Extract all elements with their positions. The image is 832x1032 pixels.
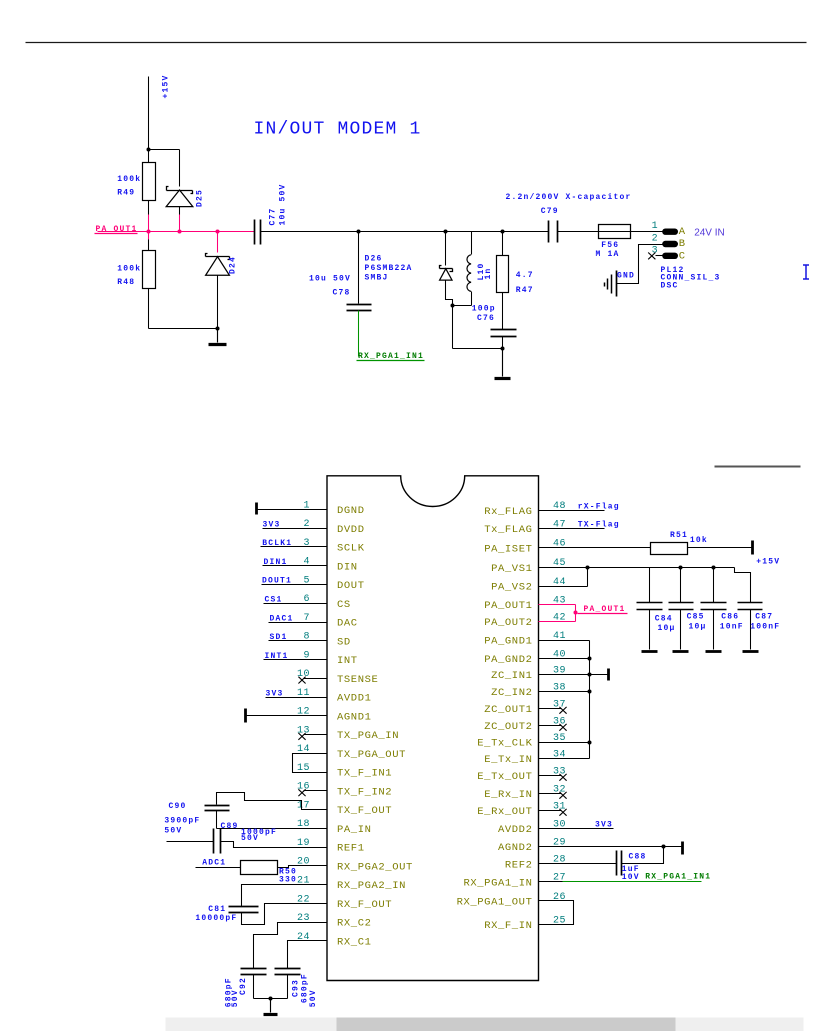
wire: R48 bottom to ground (149, 289, 220, 331)
svg-text:680pF: 680pF (300, 973, 309, 1003)
svg-text:TX_PGA_IN: TX_PGA_IN (337, 730, 399, 742)
pin 18 PA_IN (297, 819, 372, 836)
svg-text:REF1: REF1 (337, 843, 365, 855)
net label INT1 (pin 9) (265, 652, 289, 661)
pin 46 PA_ISET (484, 539, 566, 556)
svg-text:PA_OUT1: PA_OUT1 (584, 605, 626, 614)
svg-text:D26: D26 (365, 255, 383, 264)
svg-text:C78: C78 (333, 289, 351, 298)
svg-text:TX_F_IN2: TX_F_IN2 (337, 786, 392, 798)
svg-text:ZC_IN2: ZC_IN2 (491, 687, 532, 699)
ground (C92/C93) (254, 997, 288, 1015)
pin 12 AGND1 (246, 707, 372, 724)
resistor R47 4.7 (497, 232, 534, 330)
svg-text:DSC: DSC (661, 281, 679, 290)
pin 29 AGND2 (498, 837, 566, 854)
svg-text:B: B (679, 238, 686, 250)
svg-text:INT: INT (337, 655, 358, 667)
wire: main AC line (261, 230, 663, 234)
svg-text:IN/OUT MODEM 1: IN/OUT MODEM 1 (254, 120, 422, 140)
ground (R48/D24) (209, 329, 227, 345)
svg-text:AGND1: AGND1 (337, 711, 372, 723)
svg-text:ADC1: ADC1 (202, 859, 226, 868)
svg-text:M 1A: M 1A (596, 250, 620, 259)
svg-text:100nF: 100nF (750, 623, 780, 632)
pin 33 E_Tx_OUT (477, 766, 566, 783)
net label DOUT1 (pin 5) (262, 577, 292, 586)
capacitor C85 10µ (669, 568, 707, 652)
svg-text:C87: C87 (755, 613, 773, 622)
svg-text:1: 1 (652, 221, 659, 232)
svg-text:RX_PGA1_IN: RX_PGA1_IN (463, 877, 532, 889)
svg-text:Tx_FLAG: Tx_FLAG (484, 524, 532, 536)
capacitor C81 10000pF (195, 885, 326, 925)
pin 14 TX_PGA_OUT (297, 744, 406, 761)
svg-text:PA_IN: PA_IN (337, 824, 372, 836)
capacitor C90 3900pF 50V (164, 793, 326, 836)
svg-text:E_Tx_OUT: E_Tx_OUT (477, 771, 532, 783)
svg-text:PA_VS1: PA_VS1 (491, 563, 532, 575)
svg-text:AGND2: AGND2 (498, 842, 533, 854)
svg-text:REF2: REF2 (505, 859, 533, 871)
svg-text:100k: 100k (117, 175, 141, 184)
svg-text:24V IN: 24V IN (694, 228, 725, 239)
svg-text:rX-Flag: rX-Flag (578, 502, 620, 511)
pin 32 E_Rx_IN (484, 784, 566, 801)
svg-text:E_Rx_IN: E_Rx_IN (484, 789, 532, 801)
pin 27 RX_PGA1_IN (463, 873, 566, 890)
wire: ZC_IN1 terminator (539, 669, 609, 681)
svg-text:RX_C1: RX_C1 (337, 937, 372, 949)
pin 1 DGND (256, 500, 365, 517)
svg-text:AVDD1: AVDD1 (337, 693, 372, 705)
capacitor C92 680pF 50V (224, 923, 326, 1008)
pin 6 CS (264, 594, 351, 611)
ground (filter) (495, 349, 511, 379)
text cursor I-beam (803, 265, 809, 279)
zener diode D25 (166, 187, 204, 232)
svg-text:3900pF: 3900pF (164, 817, 200, 826)
TVS diode D26 P6SMB22A (365, 232, 453, 306)
svg-text:C88: C88 (629, 852, 647, 861)
svg-text:26: 26 (553, 892, 566, 903)
capacitor C89 1000pF 50V (167, 822, 327, 854)
svg-text:R49: R49 (117, 189, 135, 198)
pin 38 ZC_IN2 (491, 682, 566, 699)
capacitor C93 680pF 50V (275, 941, 327, 1008)
svg-text:C81: C81 (208, 905, 226, 914)
pin 37 ZC_OUT1 (484, 699, 566, 716)
pin 12 terminator bar (244, 709, 247, 723)
svg-text:10µ: 10µ (689, 623, 707, 632)
resistor R48 100k (117, 232, 155, 289)
pin 43 PA_OUT1 (484, 595, 566, 612)
wire: PA_VS1/PA_VS2 +15V rail (539, 566, 751, 603)
capacitor C88 1uF 10V (REF2) (539, 847, 664, 882)
zener diode D24 (206, 232, 238, 329)
pin 24 RX_C1 (297, 932, 372, 949)
inductor L10 1n (467, 232, 493, 306)
svg-text:RX_C2: RX_C2 (337, 918, 372, 930)
svg-text:F56: F56 (601, 241, 619, 250)
svg-text:3V3: 3V3 (266, 689, 284, 698)
svg-text:2.2n/200V X-capacitor: 2.2n/200V X-capacitor (506, 193, 632, 202)
net RX_PGA1_IN1 (pin 27) (539, 873, 712, 882)
wire: pins 26-25 loop (539, 901, 574, 925)
svg-text:P6SMB22A: P6SMB22A (365, 264, 413, 273)
wire: PA_GND rail (pins 41,40,39,38,35,34) (539, 641, 592, 759)
svg-text:10µ: 10µ (658, 624, 676, 633)
pin 16 TX_F_IN2 (297, 782, 392, 799)
svg-text:RX_F_IN: RX_F_IN (484, 920, 532, 932)
svg-text:C85: C85 (687, 613, 705, 622)
svg-text:PA_ISET: PA_ISET (484, 543, 532, 555)
pin 26 RX_PGA1_OUT (457, 892, 566, 909)
svg-text:PA_OUT1: PA_OUT1 (484, 600, 532, 612)
svg-text:SCLK: SCLK (337, 543, 365, 555)
svg-text:D25: D25 (195, 189, 204, 207)
svg-text:24: 24 (297, 932, 310, 943)
svg-text:RX_PGA1_IN1: RX_PGA1_IN1 (645, 873, 711, 882)
svg-text:GND: GND (617, 272, 635, 281)
net label SD1 (pin 8) (270, 633, 288, 642)
pin 8 SD (269, 632, 351, 649)
pin 1 terminator bar (255, 503, 258, 515)
svg-text:3V3: 3V3 (263, 521, 281, 530)
svg-text:E_Tx_CLK: E_Tx_CLK (477, 738, 532, 750)
svg-text:RX_PGA2_OUT: RX_PGA2_OUT (337, 861, 413, 873)
net label 3V3 (pin 2) (263, 521, 281, 530)
fuse F56 M 1A (596, 225, 631, 259)
svg-text:PA_VS2: PA_VS2 (491, 582, 532, 594)
pin 7 DAC (269, 613, 358, 630)
svg-text:C89: C89 (221, 822, 239, 831)
svg-text:50V: 50V (164, 827, 182, 836)
svg-text:RX_PGA1_OUT: RX_PGA1_OUT (457, 897, 533, 909)
wire: pins 14-15 loop (293, 754, 327, 773)
svg-text:12: 12 (297, 707, 310, 718)
svg-text:C92: C92 (239, 977, 248, 995)
net RX_PGA1_IN1 (at C78) (357, 311, 425, 362)
svg-text:+15V: +15V (162, 74, 171, 98)
svg-text:PA_GND1: PA_GND1 (484, 636, 532, 648)
pin 31 E_Rx_OUT (477, 801, 566, 818)
svg-text:3V3: 3V3 (595, 821, 613, 830)
net label CS1 (pin 6) (265, 596, 283, 605)
pin 42 PA_OUT2 (484, 612, 566, 629)
resistor R51 10k to +15V (539, 531, 781, 566)
svg-text:TX_PGA_OUT: TX_PGA_OUT (337, 749, 406, 761)
pin 34 E_Tx_IN (484, 749, 566, 766)
svg-text:20: 20 (297, 857, 310, 868)
net label 3V3 (pin 11) (266, 689, 284, 698)
capacitor C79 2.2n/200V X-capacitor (506, 193, 632, 242)
svg-text:C76: C76 (477, 314, 495, 323)
svg-text:E_Tx_IN: E_Tx_IN (484, 754, 532, 766)
pin 21 RX_PGA2_IN (297, 876, 406, 893)
svg-text:50V: 50V (241, 834, 259, 843)
wire: pin2 to GND (617, 245, 663, 284)
svg-text:DAC: DAC (337, 618, 358, 630)
net 3V3 (pin 30) (539, 821, 614, 830)
pin 35 E_Tx_CLK (477, 733, 566, 750)
capacitor C87 100nF (738, 603, 781, 652)
svg-text:TX_F_OUT: TX_F_OUT (337, 805, 392, 817)
svg-text:SD1: SD1 (270, 633, 288, 642)
svg-text:3: 3 (303, 538, 310, 549)
scrollbar track (166, 1018, 804, 1032)
svg-text:330: 330 (279, 876, 297, 885)
svg-text:ZC_OUT1: ZC_OUT1 (484, 704, 532, 716)
svg-text:DOUT1: DOUT1 (262, 577, 292, 586)
label 24V IN (694, 228, 725, 239)
wire: AGND2 (pin 29) with terminator (539, 842, 683, 855)
pin 15 TX_F_IN1 (297, 763, 392, 780)
scrollbar thumb (337, 1018, 676, 1032)
node: +15V junction (147, 148, 180, 187)
svg-text:D24: D24 (229, 256, 238, 274)
pin 23 RX_C2 (297, 913, 372, 930)
pin 36 ZC_OUT2 (484, 716, 566, 733)
gray divider line (715, 466, 801, 468)
svg-text:TX_F_IN1: TX_F_IN1 (337, 768, 392, 780)
svg-text:DOUT: DOUT (337, 580, 365, 592)
svg-text:R47: R47 (516, 286, 534, 295)
svg-text:CS: CS (337, 599, 351, 611)
svg-text:RX_PGA2_IN: RX_PGA2_IN (337, 880, 406, 892)
pin 3 no-connect (648, 253, 662, 260)
net label DAC1 (pin 7) (270, 614, 294, 623)
pin 19 REF1 (297, 838, 365, 855)
svg-text:C: C (679, 250, 686, 262)
pin 20 RX_PGA2_OUT (297, 857, 413, 874)
svg-text:Rx_FLAG: Rx_FLAG (484, 506, 532, 518)
pin 4 DIN (263, 557, 358, 574)
svg-text:+15V: +15V (756, 557, 780, 566)
ground GND (connector) (605, 271, 636, 297)
capacitor C86 10nF (701, 568, 744, 652)
svg-text:C84: C84 (655, 615, 673, 624)
svg-text:A: A (679, 226, 686, 238)
capacitor C77 10u 50V (255, 183, 288, 244)
pin 40 PA_GND2 (484, 649, 566, 666)
net rX-Flag (pin 48) (539, 502, 620, 511)
svg-text:RX_F_OUT: RX_F_OUT (337, 899, 392, 911)
svg-text:INT1: INT1 (265, 652, 289, 661)
net label DIN1 (pin 4) (264, 558, 288, 567)
svg-text:C77: C77 (269, 207, 278, 225)
svg-text:100k: 100k (117, 265, 141, 274)
title IN/OUT MODEM 1 (254, 120, 422, 140)
svg-text:DVDD: DVDD (337, 524, 365, 536)
pin 30 AVDD2 (498, 819, 566, 836)
svg-text:E_Rx_OUT: E_Rx_OUT (477, 806, 532, 818)
svg-text:BCLK1: BCLK1 (262, 539, 292, 548)
pin 22 RX_F_OUT (297, 894, 392, 911)
net PA_OUT1 (top) (95, 225, 255, 234)
pin 25 RX_F_IN (484, 915, 566, 932)
svg-text:DIN: DIN (337, 561, 358, 573)
pin 2 DVDD (263, 519, 365, 536)
svg-text:DGND: DGND (337, 505, 365, 517)
svg-text:DIN1: DIN1 (264, 558, 288, 567)
pin 3 SCLK (261, 538, 365, 555)
svg-text:ZC_OUT2: ZC_OUT2 (484, 721, 532, 733)
svg-text:C90: C90 (169, 802, 187, 811)
capacitor C84 10µ (637, 568, 676, 652)
svg-text:100p: 100p (472, 305, 496, 314)
svg-text:R48: R48 (117, 278, 135, 287)
pin 28 REF2 (505, 855, 566, 872)
pin 39 ZC_IN1 (491, 665, 566, 682)
pin 17 TX_F_OUT (297, 801, 392, 818)
svg-text:1n: 1n (484, 267, 493, 279)
capacitor C78 10u 50V (309, 232, 372, 311)
svg-text:4.7: 4.7 (516, 271, 534, 280)
svg-text:10u 50V: 10u 50V (279, 183, 288, 225)
top border rule (26, 42, 807, 44)
svg-text:10u 50V: 10u 50V (309, 275, 351, 284)
svg-text:ZC_IN1: ZC_IN1 (491, 670, 532, 682)
pin 47 Tx_FLAG (484, 519, 566, 536)
svg-text:DAC1: DAC1 (270, 614, 294, 623)
net PA_OUT1 (pins 43/42) (539, 605, 628, 622)
pin 13 TX_PGA_IN (297, 725, 399, 742)
resistor R49 100k (117, 150, 155, 232)
pin 5 DOUT (262, 575, 365, 592)
svg-text:AVDD2: AVDD2 (498, 824, 533, 836)
net label BCLK1 (pin 3) (262, 539, 292, 548)
pin 45 PA_VS1 (491, 558, 566, 575)
pin 11 AVDD1 (266, 688, 372, 705)
svg-text:TSENSE: TSENSE (337, 674, 378, 686)
svg-text:10V: 10V (622, 873, 640, 882)
wire: D26/L10 common to ground rail (451, 304, 505, 351)
pin 9 INT (264, 650, 358, 667)
pin 41 PA_GND1 (484, 631, 566, 648)
svg-text:C86: C86 (721, 613, 739, 622)
svg-text:SD: SD (337, 636, 351, 648)
svg-text:PA_OUT2: PA_OUT2 (484, 617, 532, 629)
svg-text:CS1: CS1 (265, 596, 283, 605)
net label ADC1 / resistor R50 330 (196, 859, 327, 885)
svg-text:TX-Flag: TX-Flag (578, 521, 620, 530)
pin 48 Rx_FLAG (484, 501, 566, 518)
connector PL12 CONN_SIL_3 (652, 221, 721, 290)
svg-text:C79: C79 (541, 207, 559, 216)
svg-text:RX_PGA1_IN1: RX_PGA1_IN1 (358, 352, 424, 361)
svg-text:PA_OUT1: PA_OUT1 (96, 225, 138, 234)
svg-text:R51: R51 (670, 531, 688, 540)
svg-text:10nF: 10nF (720, 623, 744, 632)
svg-text:PA_GND2: PA_GND2 (484, 654, 532, 666)
wire: pin 18 PA_IN (217, 828, 327, 830)
svg-text:10k: 10k (690, 536, 708, 545)
svg-text:SMBJ: SMBJ (365, 274, 389, 283)
+15V supply stub (149, 74, 171, 149)
pin 44 PA_VS2 (491, 577, 566, 594)
capacitor C76 100p (472, 305, 517, 349)
svg-text:46: 46 (553, 539, 566, 550)
net TX-Flag (pin 47) (539, 521, 620, 530)
svg-text:2: 2 (652, 233, 659, 244)
svg-text:10000pF: 10000pF (195, 914, 237, 923)
IC U? body (48-pin) (327, 476, 539, 981)
pin 10 TSENSE (297, 669, 378, 686)
svg-text:50V: 50V (309, 989, 318, 1007)
